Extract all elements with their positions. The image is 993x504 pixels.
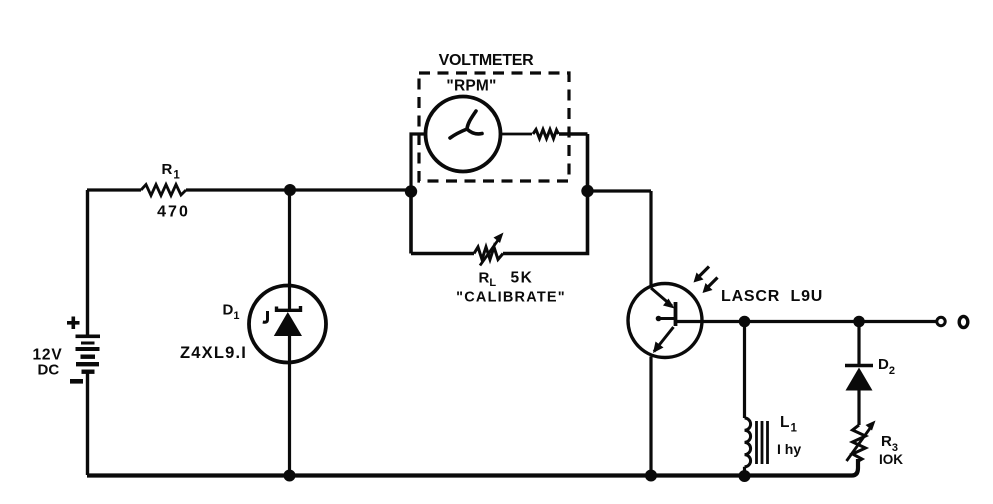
LASCR gate stub with blob bbox=[659, 317, 675, 320]
light arrow 2 bbox=[707, 278, 718, 289]
resistor R2 (voltmeter internal) bbox=[533, 130, 559, 139]
svg-text:IOK: IOK bbox=[879, 452, 903, 467]
wire R3 bottom bbox=[857, 459, 860, 464]
zener diode D1 bar bbox=[277, 306, 301, 310]
wire meter right lead bbox=[501, 133, 533, 136]
svg-text:I hy: I hy bbox=[777, 441, 801, 457]
zener diode D1 circle bbox=[249, 286, 326, 363]
LASCR cathode diagonal with arrow bbox=[654, 327, 674, 352]
wire D1 vertical from node A bbox=[288, 190, 291, 311]
wire R1 to node A bbox=[186, 188, 290, 191]
wire D2 to R3 bbox=[857, 390, 860, 425]
resistor R1 bbox=[141, 185, 186, 196]
inductor L1 core lines bbox=[757, 421, 768, 464]
meter M1 circle bbox=[426, 97, 501, 172]
inductor L1 coil bbox=[745, 418, 751, 467]
svg-text:470: 470 bbox=[157, 204, 190, 221]
zener diode D1 triangle bbox=[274, 312, 302, 336]
wire RL loop bottom left bbox=[411, 252, 474, 256]
wire battery bottom vertical bbox=[86, 373, 89, 475]
svg-text:DC: DC bbox=[38, 362, 60, 379]
battery B1 12V plates bbox=[76, 335, 101, 374]
wire D2 top vertical bbox=[857, 322, 860, 367]
LASCR center bar bbox=[674, 302, 678, 326]
LASCR Q1 circle bbox=[628, 284, 702, 358]
svg-text:LASCR: LASCR bbox=[721, 288, 780, 305]
wire bottom rail bbox=[87, 459, 858, 476]
battery plus sign bbox=[67, 317, 80, 330]
resistor R3 zigzag bbox=[853, 425, 866, 461]
label 0 output bbox=[959, 316, 968, 327]
wire L1 top vertical bbox=[743, 322, 746, 419]
wire L1 bottom bbox=[743, 467, 746, 475]
resistor R3 arrow bbox=[847, 426, 873, 462]
zener diode D1 left J mark bbox=[263, 311, 268, 322]
svg-text:VOLTMETER: VOLTMETER bbox=[439, 52, 535, 69]
svg-text:L9U: L9U bbox=[791, 288, 824, 305]
node E junction (D2 top) bbox=[853, 316, 865, 328]
wire D1 bottom vertical bbox=[288, 335, 291, 475]
svg-text:"CALIBRATE": "CALIBRATE" bbox=[456, 290, 566, 306]
wire LASCR gate output bbox=[676, 320, 937, 323]
junction LASCR-bottom rail bbox=[645, 470, 657, 482]
wire top-left horizontal from battery top to R1 bbox=[87, 188, 141, 191]
wire meter right lead to corner bbox=[559, 134, 588, 186]
diode D2 bar bbox=[845, 364, 873, 368]
output terminal circle bbox=[937, 317, 945, 325]
svg-text:5K: 5K bbox=[511, 270, 534, 287]
LASCR anode diagonal with arrow bbox=[651, 288, 672, 306]
meter M1 needle symbol bbox=[450, 111, 482, 138]
resistor RL zigzag bbox=[474, 247, 503, 260]
diode D2 triangle bbox=[846, 368, 873, 391]
wire RL loop left bbox=[409, 191, 413, 254]
wire node C to LASCR top corner bbox=[588, 191, 652, 287]
wire battery left vertical top bbox=[86, 190, 89, 336]
svg-text:"RPM": "RPM" bbox=[446, 78, 496, 95]
LASCR cathode wire down bbox=[649, 357, 652, 476]
light arrow 1 bbox=[698, 267, 709, 278]
resistor RL arrow bbox=[480, 238, 500, 266]
svg-text:Z4XL9.I: Z4XL9.I bbox=[180, 344, 247, 362]
wire RL loop bottom right bbox=[503, 191, 588, 254]
voltmeter dashed box bbox=[419, 73, 569, 181]
wire node A to node B bbox=[290, 188, 411, 191]
junction L1-bottom rail bbox=[739, 470, 751, 482]
node D junction (L1 top) bbox=[739, 316, 751, 328]
junction D1-bottom rail bbox=[284, 470, 296, 482]
node A junction (top of D1) bbox=[284, 184, 296, 196]
node C junction (voltmeter right) bbox=[581, 185, 593, 197]
battery minus sign bbox=[70, 379, 83, 384]
wire meter left lead bbox=[411, 134, 426, 186]
node B junction (voltmeter left) bbox=[405, 185, 417, 197]
